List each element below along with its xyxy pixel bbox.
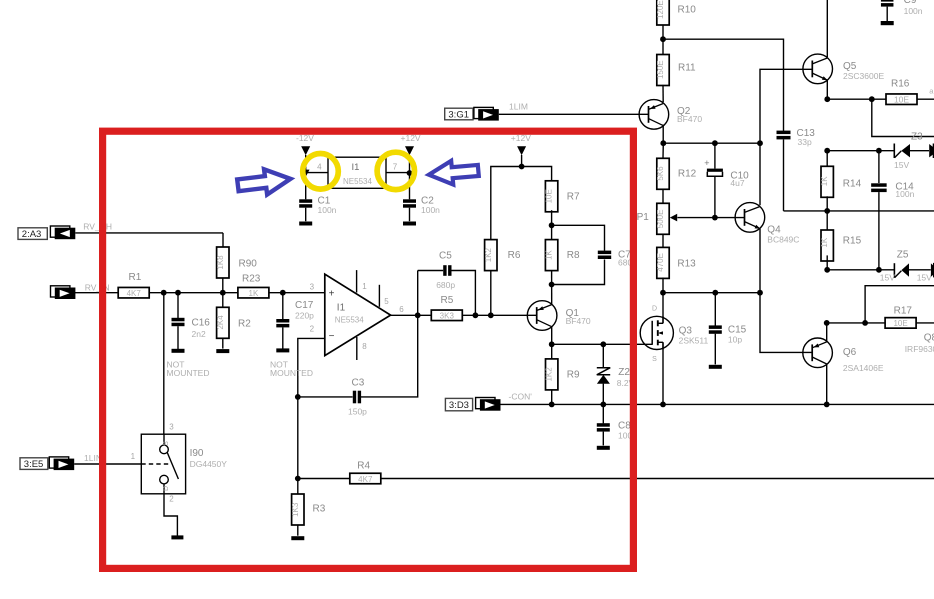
ground below C1 [299,222,312,226]
svg-text:D: D [163,486,170,491]
resistor R15 1K [820,230,861,261]
node C17 [280,290,286,296]
node Z2/C8/-CON [600,402,606,408]
resistor R6 1K2 [484,240,521,271]
wire node to I90 switch pin 3 [163,293,165,435]
svg-text:680p: 680p [436,280,455,290]
svg-text:3K3: 3K3 [440,312,455,321]
wire Z3 rail [827,150,894,152]
zener Z3 15V [894,131,923,170]
wire -CON to C8 [602,404,604,423]
wire R90 to R2 [222,278,224,308]
wire R2 to ground [222,338,224,348]
svg-text:RV_RH: RV_RH [83,221,112,231]
svg-text:2SA1406E: 2SA1406E [843,363,884,373]
node R90/R2 [220,290,226,296]
svg-text:4u7: 4u7 [730,178,744,188]
svg-text:R14: R14 [843,178,862,189]
ground below C9 [881,21,894,25]
ground below C2 [403,222,416,226]
svg-text:R7: R7 [567,192,580,203]
svg-text:C16: C16 [192,317,211,328]
svg-text:33p: 33p [798,137,812,147]
node R3/R4 [295,476,301,482]
node Q2/R12 rail [660,140,666,146]
transistor Q6 2SA1406E (PNP) [803,338,884,373]
wire C14 down to Z5 node [878,192,880,270]
wire C5 to node [449,271,476,316]
svg-text:Z3: Z3 [911,131,923,142]
wire node to R3 [297,479,299,495]
svg-text:R16: R16 [891,78,910,89]
transistor Q2 BF470 (PNP) [639,100,702,130]
wire Q5 base net down to Q4 collector [760,69,812,205]
resistor R17 10E [885,305,916,328]
svg-text:220p: 220p [295,310,314,320]
zener Z4 (partial at edge) [929,144,934,159]
wire C2 to ground [409,208,411,222]
wire Q4emitter node down to Q6 base [760,293,812,353]
wire Z5 to Z6 [909,269,931,271]
wire I1 pin 4 [306,172,328,174]
svg-text:1K: 1K [820,176,829,186]
svg-text:Z2: Z2 [618,367,630,378]
wire R16 to right edge [917,98,934,100]
wire R23 to op-amp pin 3 [269,292,325,294]
node R14/Z3 [824,148,830,154]
svg-text:1K3: 1K3 [291,502,300,517]
node R15/Z5 [824,267,830,273]
svg-text:7: 7 [393,162,398,171]
net label -CON' [509,392,533,402]
wire R17 node up to right edge [865,286,934,323]
transistor Q4 BC849C (NPN) [735,203,799,245]
capacitor C13 33p [777,128,816,147]
wire RV_RH net from port 2:A3 to R90 [75,233,223,247]
capacitor C14 100n [871,181,914,199]
node R7/R8/C7 [549,222,555,228]
svg-text:1K: 1K [249,289,259,298]
ground below C16 [172,349,185,353]
wire R16 rail [827,98,885,100]
node Q3 drain/R13 [660,290,666,296]
wire rail Q2-C10-Q5base [663,142,760,144]
wire C10 to wiper node [714,176,716,217]
svg-text:5K6: 5K6 [656,166,665,181]
svg-text:1: 1 [362,282,367,291]
port 3:D3 (-CON in) [445,398,500,412]
node C16 [175,290,181,296]
node pin7/+12V [407,170,413,176]
wire C15 to ground [714,334,716,365]
node Z2 top [600,341,606,347]
wire -12V stem [305,155,307,170]
resistor R12 5K6 [656,158,697,189]
svg-text:R8: R8 [567,250,580,261]
wire C8 to ground [602,432,604,446]
wire rail to R12 [662,143,664,158]
svg-text:2:A3: 2:A3 [22,229,42,240]
svg-text:R17: R17 [894,305,913,316]
svg-text:1K2: 1K2 [484,247,493,262]
svg-text:2SK511: 2SK511 [679,336,709,346]
net label 1LIM [509,102,528,112]
op-amp I1 power pins box (NE5534) [317,157,398,188]
wire R1 to R23 node [149,292,238,294]
svg-text:NE5534: NE5534 [335,315,364,324]
node R16/drop [869,96,875,102]
net label RV_RH [83,221,112,231]
resistor R3 1K3 [291,494,326,525]
node C15 top [712,290,718,296]
node C10 top [712,140,718,146]
op-amp I1 NE5534 [310,270,405,360]
wire Q6 emitter to R17 node [826,323,828,342]
svg-text:Z5: Z5 [897,249,909,260]
svg-text:R12: R12 [678,169,697,180]
svg-text:R3: R3 [313,504,326,515]
svg-text:2SC3600E: 2SC3600E [843,71,884,81]
wire 1LIM port to Q2 base [499,113,649,115]
wire R5 to Q1 base [462,314,537,316]
transistor Q1 BF470 (PNP) [527,301,591,331]
svg-text:10p: 10p [728,334,742,344]
annotation yellow circle on pin 7 [377,152,414,189]
wire R13 to mid rail [662,278,664,293]
svg-text:−: − [329,331,335,342]
node Q5 base/Q4 coll [757,140,763,146]
capacitor C9 100n [881,0,923,16]
svg-text:C3: C3 [352,378,365,389]
wire R11 to Q2 emitter [662,85,664,102]
svg-text:I1: I1 [352,162,360,173]
wire -CON net rail [501,403,934,405]
ground below C8 [597,446,610,450]
svg-text:100n: 100n [421,205,440,215]
wire P1 to R13 [662,235,664,248]
svg-text:1LIM: 1LIM [509,102,528,112]
transistor Q3 2SK511 (N-MOSFET) [640,306,708,363]
capacitor C1 100n [299,196,336,215]
partial label Q8 IRF9630 at right edge [905,332,934,354]
net label 1LIN [84,453,102,463]
wire R3 node to R4 [298,478,350,480]
wire op-amp pin 2 feedback [298,338,325,478]
svg-text:DG4450Y: DG4450Y [190,459,228,469]
svg-text:R23: R23 [242,273,261,284]
wire R4 net to right edge [381,478,934,480]
wire mid rail Q3drain-C15-Q4emitter [663,292,760,294]
resistor R90 1K8 [216,247,257,278]
svg-text:1: 1 [131,452,136,461]
resistor R8 1K [545,240,580,271]
svg-text:R15: R15 [843,235,862,246]
svg-text:1K: 1K [545,250,554,260]
wire Z5 rail [827,269,894,271]
power +12V symbol over pin 7 [401,133,421,155]
svg-text:5: 5 [384,297,389,306]
wire C14 riser [878,151,880,183]
svg-text:I90: I90 [190,448,204,459]
svg-text:2: 2 [310,325,315,334]
wire R15 to Z5 node [826,255,828,269]
resistor R13 470E [656,247,696,278]
node R8/C7/Q1 [549,282,555,288]
node Q3 source/-CON [660,402,666,408]
svg-text:R6: R6 [508,250,521,261]
svg-text:-CON': -CON' [509,392,533,402]
wire Q5 collector to top edge [826,0,828,57]
wire feedback node to C3 [298,396,353,398]
wire R17 rail [827,322,886,324]
svg-text:MOUNTED: MOUNTED [270,368,313,378]
wire Z3 to Z4 [910,150,929,152]
capacitor C7 680p [598,249,637,267]
svg-text:D: D [652,306,657,313]
node R14/R15 rail [824,208,830,214]
svg-text:1K8: 1K8 [216,255,225,270]
node Q1 coll/R9/Z2 [549,341,555,347]
svg-text:C5: C5 [439,250,452,261]
wire C3 to output riser [358,271,417,397]
wire node to C17 [282,293,284,320]
power -12V symbol [296,133,314,155]
port 2:A3 (RV_RH out) [18,226,75,240]
svg-text:R2: R2 [238,319,251,330]
node C5/R5 [473,312,479,318]
resistor R23 1K [238,273,269,298]
svg-text:Q5: Q5 [843,61,857,72]
svg-text:15V: 15V [917,273,932,283]
wire C9 stub [886,7,888,22]
wire C15 riser [714,293,716,326]
svg-text:a: a [929,87,934,96]
svg-text:100n: 100n [318,205,337,215]
svg-text:3:E5: 3:E5 [24,459,44,470]
transistor Q5 2SC3600E (NPN) [803,54,885,84]
ground below C17 [276,348,289,352]
svg-text:BF470: BF470 [677,114,702,124]
wire R9 to -CON rail [551,390,553,404]
svg-text:10E: 10E [894,94,909,104]
wire node to Z2 [602,344,604,367]
wire +12V stem to pin 7 [409,155,411,199]
port 3:E5 (1LIN in) [20,457,74,470]
capacitor C15 10p [709,324,747,344]
node Q5 emitter/R16 [824,96,830,102]
svg-text:R9: R9 [567,370,580,381]
svg-text:I1: I1 [337,303,346,314]
resistor R11 150E [656,55,696,86]
node R1/I90 [161,290,167,296]
svg-text:2: 2 [169,495,174,504]
wire R12 to P1 [662,189,664,204]
svg-text:3: 3 [310,282,315,291]
svg-text:R4: R4 [357,460,370,471]
svg-text:470E: 470E [656,253,665,272]
wire R17 to right edge [916,322,934,324]
svg-text:500E: 500E [656,210,665,229]
ground below R2 [216,349,229,353]
svg-text:R1: R1 [129,272,142,283]
capacitor C8 100n [597,421,637,441]
svg-text:MOUNTED: MOUNTED [167,368,210,378]
svg-text:120E: 120E [656,0,665,19]
svg-text:3:G1: 3:G1 [448,109,469,120]
resistor R7 10E [545,181,580,212]
node R9/-CON [549,402,555,408]
wire Q1 node to Q3 gate [552,343,653,345]
wire Q5 emitter to R16 node [826,80,828,99]
label NOT MOUNTED for C16 [167,360,210,379]
node R10/R11/C13 [660,36,666,42]
wire R8 to Q1 emitter [551,270,553,304]
wire rail to R15 [826,211,828,230]
wire R7 to R8 [551,210,553,239]
node C10/P1 wiper [712,215,718,221]
capacitor C5 680p [436,250,455,290]
node C14/Z5 [876,267,882,273]
resistor R14 1K [820,166,861,197]
node Q6/-CON [824,402,830,408]
annotation blue arrow pointing right at pin 4 [236,166,292,198]
resistor R2 2K4 [216,307,251,338]
svg-text:4: 4 [317,162,322,171]
wire R3 to ground [297,526,299,536]
ground below C15 [709,365,722,369]
wire pin4 to C1 [305,177,307,200]
wire C17 to ground [282,327,284,348]
wire Q6 collector to -CON rail [826,364,828,404]
resistor R5 3K3 [431,295,462,320]
svg-text:1K2: 1K2 [545,367,554,382]
svg-text:R5: R5 [441,295,454,306]
wire I90 pin 2 to ground [164,494,177,536]
wire Q3 drain riser [662,293,664,324]
svg-text:R10: R10 [678,5,697,16]
wire node to C13 top [663,39,784,131]
resistor R4 4K7 [350,460,381,484]
svg-text:4K7: 4K7 [127,289,142,298]
wire R16 node drop to right edge [872,99,934,136]
svg-text:1K: 1K [820,237,829,247]
zener Z6 (partial at edge) [931,263,934,278]
svg-text:15V: 15V [894,160,909,170]
tiny cut text near R16 [929,87,934,96]
svg-text:BC849C: BC849C [767,235,799,245]
svg-text:Q8: Q8 [924,332,934,343]
node R6/Q1 base [488,312,494,318]
svg-text:IRF9630: IRF9630 [905,344,934,354]
wire +12V rail to R6 and R7 [491,167,552,240]
wire C10 riser [714,143,716,168]
zener Z5 15V [880,249,932,282]
pin 4 end marker [302,170,310,177]
svg-text:S: S [652,356,657,363]
node C14/Z3 [876,148,882,154]
label NOT MOUNTED for C17 [270,360,313,379]
wire C1 to ground [305,208,307,222]
svg-text:2K4: 2K4 [216,315,225,330]
wire Q5 emitter net rail [784,210,934,212]
wire op-amp pin 6 output [391,314,432,316]
wire C16 to ground [177,326,179,349]
resistor R9 1K2 [545,359,580,390]
node output/C3 [415,312,421,318]
ground below R3 [291,536,304,540]
svg-text:2n2: 2n2 [192,329,206,339]
port RV_IN (in) [51,286,76,299]
analog switch I90 DG4450Y [131,422,228,503]
annotation yellow circle on pin 4 [303,154,339,190]
svg-text:10E: 10E [545,189,554,203]
svg-text:15V: 15V [880,273,895,283]
svg-text:100n: 100n [904,6,923,16]
net label RV_IN [85,282,110,292]
wire Q4 emitter down [759,229,761,293]
capacitor C3 150p [348,378,367,417]
svg-text:6: 6 [399,305,404,314]
wire node to C16 [177,293,179,318]
svg-text:8: 8 [362,342,367,351]
svg-text:3: 3 [169,422,174,431]
wire RV_IN net port to R1 [75,292,119,294]
potentiometer P1 500E [637,203,678,234]
svg-text:4K7: 4K7 [358,475,373,484]
wire 1LIN port to I90 pin 1 [74,463,141,465]
svg-text:P1: P1 [637,212,650,223]
wire P1 wiper to Q4 base [677,217,744,219]
node +12V [519,164,525,170]
svg-text:100n: 100n [895,189,914,199]
svg-text:+: + [704,158,709,168]
wire Z2 to -CON rail [602,384,604,405]
svg-text:150p: 150p [348,407,367,417]
node Q6 emitter/R17 [824,320,830,326]
wire R10 to R11 node [662,25,664,54]
wire Q3 source to -CON rail [662,342,664,404]
svg-text:S: S [163,441,170,446]
wire +12V arrow stem [521,155,523,167]
wire C7 bottom to node [552,260,605,285]
capacitor C2 100n [403,196,440,215]
capacitor C10 4u7 electrolytic [704,158,749,188]
svg-text:150E: 150E [656,60,665,79]
svg-text:NE5534: NE5534 [343,177,372,186]
svg-text:R11: R11 [678,62,696,73]
annotation blue arrow pointing left at pin 7 [428,159,479,187]
node R17 branch [862,320,868,326]
svg-text:10E: 10E [893,319,907,328]
svg-text:R90: R90 [239,258,258,269]
port 3:G1 (1LIM in) [445,107,499,120]
wire C5 top branch [418,270,444,272]
svg-text:C9: C9 [904,0,917,6]
wire C13 bottom [783,139,785,211]
resistor R16 10E [886,78,917,104]
svg-text:3:D3: 3:D3 [449,400,469,411]
power +12V symbol over R6/R7 [511,133,531,155]
node feedback/C3 [295,394,301,400]
node Q4 emitter [757,290,763,296]
ground below I90 [171,535,183,539]
svg-text:+: + [329,288,335,299]
capacitor C17 220p [276,300,314,327]
wire I1 pin 7 [386,172,410,174]
wire R6 bottom to node [490,270,492,315]
zener Z2 8.2V [597,367,635,388]
resistor R1 4K7 [118,272,149,298]
